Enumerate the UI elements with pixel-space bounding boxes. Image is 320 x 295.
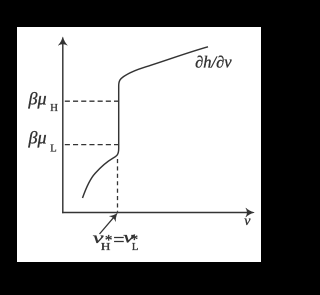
dashed line betamu_H: [65, 100, 118, 102]
isotherm curve dh/dv: [83, 47, 209, 198]
label betamu_H: [28, 89, 59, 114]
dashed line betamu_L: [65, 144, 118, 146]
y-axis arrowhead: [58, 37, 67, 45]
dashed vertical line at v*: [117, 159, 119, 212]
white plot panel: [17, 27, 261, 262]
svg-text:v: v: [244, 214, 251, 229]
pointer arrow from label to axis: [100, 217, 115, 234]
svg-text:L: L: [50, 143, 56, 154]
svg-text:*: *: [131, 232, 139, 248]
label betamu_L: [28, 128, 57, 155]
y-axis: [62, 41, 64, 213]
svg-text:*: *: [105, 232, 113, 248]
svg-text:βμ: βμ: [28, 89, 47, 109]
label v*_H = v*_L: [93, 229, 139, 253]
svg-text:βμ: βμ: [28, 128, 47, 148]
svg-text:∂h/∂v: ∂h/∂v: [195, 53, 232, 72]
x-axis: [62, 212, 251, 214]
svg-text:H: H: [50, 103, 58, 114]
x-axis arrowhead: [246, 208, 254, 217]
